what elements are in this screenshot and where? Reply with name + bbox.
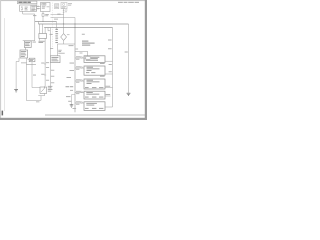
wire code label y14.5 [57, 13, 60, 16]
wire code on x45.1 [46, 66, 49, 69]
page border right [145, 0, 147, 120]
footer dash left edge [2, 111, 3, 116]
relay right label cell [31, 6, 37, 11]
vertical wire code text stack [55, 29, 58, 30]
ground drop left of riser [72, 94, 76, 96]
bus y14.5 [51, 14, 64, 16]
R2 bottom pins [39, 38, 41, 40]
connector diamond [63, 24, 65, 33]
ground wire from lower key box [16, 58, 19, 89]
battery box [61, 3, 67, 9]
label near relay R2 [50, 33, 53, 36]
right feed B [112, 28, 114, 108]
control module text [82, 41, 88, 42]
box B2 door lock solenoid LH [84, 66, 105, 75]
relay R2 box [39, 34, 47, 39]
title box tie down [36, 4, 38, 5]
bus y27.5 [44, 27, 112, 29]
junction dots [63, 23, 64, 24]
link between key boxes [25, 48, 27, 51]
tie 21.5-24 [37, 22, 39, 25]
box B3 rear door lock solenoid [84, 79, 105, 89]
wire stub relay pin1 [37, 5, 41, 7]
harness dashed line [52, 3, 54, 48]
page border bottom [0, 118, 147, 120]
ground G3 [127, 93, 131, 95]
small switch box mid-left [29, 58, 35, 62]
battery drop wire [63, 9, 65, 24]
bottom rail [45, 114, 145, 116]
short link y30.8 [48, 30, 50, 32]
switch lower terminal bar [43, 93, 45, 95]
box B5 tailgate lock solenoid [84, 102, 105, 111]
bus y17.5 [51, 17, 76, 19]
connector ticks on wire x45 [44, 63, 46, 65]
fuse wire from junction block [42, 12, 44, 14]
B2 left stub [75, 67, 84, 69]
bus label [54, 18, 58, 21]
lower key box [20, 50, 28, 58]
wire down from B0 to ground G2 [49, 63, 51, 88]
B4 left stub [75, 92, 84, 94]
box B4 door lock solenoid RH [84, 91, 105, 99]
B5 left stub [75, 102, 84, 104]
page border left [0, 0, 1, 120]
wire down from small box [32, 62, 40, 88]
fuse F1 [42, 14, 44, 16]
ground G4 [70, 105, 74, 107]
key switch box [24, 41, 31, 48]
B1 left stub [75, 57, 84, 59]
bus y21.5 [35, 21, 57, 23]
actuator relay box B0 [51, 56, 61, 63]
document number text top-right [118, 2, 123, 3]
link y44 to main riser [58, 43, 76, 45]
junction dot fuse/bus [42, 21, 43, 22]
wire code label [33, 14, 36, 17]
B1 right stub [105, 60, 113, 62]
box B1 front door lock [84, 56, 105, 63]
long return wire to door switch [26, 58, 41, 100]
battery side label [68, 2, 72, 5]
wire code labels right risers [108, 39, 112, 42]
B5 right stub [105, 106, 113, 108]
main riser x75 [74, 24, 76, 112]
drop x50.3 [49, 28, 51, 56]
relay text [25, 6, 28, 9]
B3 right stub [105, 87, 113, 89]
door switch box [40, 87, 47, 94]
riser to actuator box [57, 44, 59, 56]
bus y24 main [38, 23, 128, 25]
right feed A [128, 24, 130, 93]
relay box K1 outline [20, 5, 37, 11]
title box Door Locking System [18, 1, 37, 4]
drop x48 [47, 28, 49, 31]
fuse label [45, 13, 49, 16]
ground G1 [14, 90, 18, 92]
junction block box [41, 3, 51, 12]
vertical wire code column x56.5 [56, 22, 58, 31]
B4 right stub [105, 95, 111, 97]
B2 right stub [105, 73, 113, 75]
wire code labels left of riser x75 [70, 62, 75, 65]
module feed corner into B1 [75, 51, 88, 56]
relay output staircase wire [23, 11, 35, 40]
inner margin line left [3, 18, 6, 111]
B3 left stub [75, 80, 84, 82]
R2 top pins [39, 24, 41, 34]
relay contact symbol [21, 7, 22, 8]
left riser into key switch box [23, 40, 35, 42]
fusible link box [55, 4, 59, 9]
page border top [0, 0, 147, 1]
R2 labels [39, 40, 45, 43]
wire code labels near riser y86 [66, 85, 70, 88]
wire stub relay pin2 [37, 8, 41, 10]
connector circles left of boxes [81, 57, 83, 59]
